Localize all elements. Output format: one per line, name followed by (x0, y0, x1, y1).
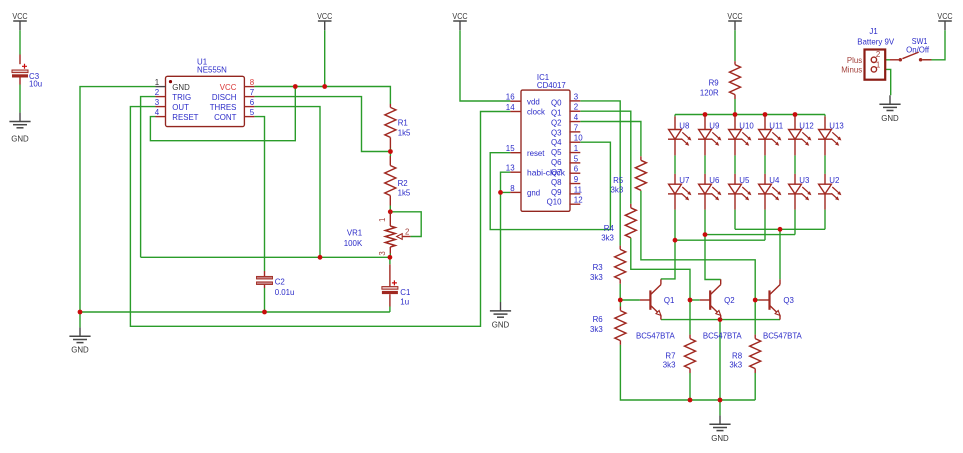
svg-text:3: 3 (378, 251, 387, 256)
svg-text:4: 4 (155, 108, 160, 117)
svg-text:U7: U7 (679, 176, 690, 185)
svg-text:OUT: OUT (172, 103, 189, 112)
svg-text:14: 14 (506, 103, 515, 112)
svg-text:U10: U10 (739, 121, 754, 130)
svg-text:12: 12 (574, 196, 583, 205)
svg-text:SW1: SW1 (912, 37, 928, 46)
svg-text:2: 2 (876, 50, 881, 59)
svg-text:VCC: VCC (727, 12, 742, 21)
svg-text:Minus: Minus (841, 66, 862, 75)
svg-text:Q8: Q8 (551, 178, 562, 187)
svg-text:CD4017: CD4017 (537, 81, 566, 90)
svg-text:120R: 120R (700, 88, 719, 97)
svg-text:Q0: Q0 (551, 99, 562, 108)
svg-text:U2: U2 (829, 176, 840, 185)
svg-text:U11: U11 (769, 121, 783, 130)
svg-text:8: 8 (510, 184, 515, 193)
svg-text:NE555N: NE555N (197, 65, 227, 74)
svg-text:4: 4 (574, 113, 579, 122)
svg-text:Q5: Q5 (551, 148, 562, 157)
svg-text:Q3: Q3 (551, 128, 562, 137)
svg-text:R5: R5 (613, 176, 624, 185)
svg-text:0.01u: 0.01u (275, 288, 295, 297)
svg-text:R3: R3 (593, 263, 604, 272)
svg-text:1: 1 (574, 144, 579, 153)
svg-text:3k3: 3k3 (590, 273, 603, 282)
svg-text:2: 2 (155, 88, 160, 97)
svg-text:Q2: Q2 (551, 118, 562, 127)
svg-text:2: 2 (405, 227, 410, 236)
svg-text:R6: R6 (593, 315, 604, 324)
svg-text:U3: U3 (799, 176, 810, 185)
svg-text:GND: GND (11, 134, 29, 143)
svg-text:U6: U6 (709, 176, 720, 185)
svg-text:J1: J1 (869, 27, 878, 36)
svg-text:R7: R7 (665, 351, 676, 360)
svg-text:7: 7 (574, 123, 579, 132)
svg-text:3: 3 (155, 98, 160, 107)
svg-text:16: 16 (506, 93, 515, 102)
svg-text:3k3: 3k3 (729, 360, 742, 369)
svg-text:VCC: VCC (12, 12, 27, 21)
svg-text:vdd: vdd (527, 97, 540, 106)
svg-text:6: 6 (250, 98, 255, 107)
svg-text:TRIG: TRIG (172, 93, 191, 102)
svg-text:1: 1 (378, 217, 387, 222)
svg-text:gnd: gnd (527, 189, 541, 198)
svg-text:BC547BTA: BC547BTA (636, 332, 675, 341)
svg-text:2: 2 (574, 103, 579, 112)
svg-text:Q3: Q3 (783, 296, 794, 305)
svg-text:GND: GND (492, 321, 510, 330)
svg-text:GND: GND (711, 434, 729, 443)
svg-text:U4: U4 (769, 176, 780, 185)
svg-text:1: 1 (155, 78, 160, 87)
svg-text:U12: U12 (799, 121, 814, 130)
svg-text:1u: 1u (400, 297, 409, 306)
svg-text:1k5: 1k5 (398, 188, 411, 197)
svg-text:Q10: Q10 (547, 198, 562, 207)
svg-text:1k5: 1k5 (398, 128, 411, 137)
svg-text:R8: R8 (732, 351, 743, 360)
svg-text:CONT: CONT (214, 113, 236, 122)
svg-text:Q1: Q1 (551, 109, 562, 118)
svg-text:Q7: Q7 (551, 168, 562, 177)
svg-text:BC547BTA: BC547BTA (703, 332, 742, 341)
svg-text:THRES: THRES (210, 103, 237, 112)
svg-text:GND: GND (71, 346, 89, 355)
svg-text:VR1: VR1 (347, 228, 363, 237)
svg-text:VCC: VCC (317, 12, 332, 21)
svg-text:U8: U8 (679, 121, 690, 130)
svg-text:BC547BTA: BC547BTA (763, 332, 802, 341)
svg-text:R1: R1 (398, 119, 409, 128)
svg-text:Battery 9V: Battery 9V (857, 38, 894, 47)
svg-text:DISCH: DISCH (212, 93, 237, 102)
svg-text:On/Off: On/Off (906, 46, 930, 55)
svg-text:Q9: Q9 (551, 188, 562, 197)
svg-text:GND: GND (172, 83, 190, 92)
svg-text:RESET: RESET (172, 113, 198, 122)
svg-text:1: 1 (876, 61, 881, 70)
svg-text:R4: R4 (604, 224, 615, 233)
svg-text:8: 8 (250, 78, 255, 87)
svg-text:C1: C1 (400, 288, 411, 297)
svg-text:U13: U13 (829, 121, 844, 130)
svg-text:3: 3 (574, 92, 579, 101)
svg-text:6: 6 (574, 165, 579, 174)
svg-text:Q4: Q4 (551, 138, 562, 147)
svg-text:3k3: 3k3 (663, 360, 676, 369)
svg-text:5: 5 (574, 154, 579, 163)
svg-text:Plus: Plus (847, 56, 862, 65)
svg-text:VCC: VCC (937, 12, 952, 21)
svg-text:VCC: VCC (220, 83, 237, 92)
svg-text:10u: 10u (29, 79, 43, 88)
svg-text:5: 5 (250, 108, 255, 117)
svg-text:10: 10 (574, 134, 583, 143)
svg-text:3k3: 3k3 (601, 234, 614, 243)
svg-text:Q1: Q1 (664, 296, 675, 305)
svg-text:11: 11 (574, 185, 583, 194)
svg-text:100K: 100K (344, 239, 363, 248)
svg-text:C2: C2 (275, 277, 286, 286)
svg-text:Q2: Q2 (724, 296, 735, 305)
svg-text:Q6: Q6 (551, 158, 562, 167)
svg-text:13: 13 (506, 164, 515, 173)
svg-text:9: 9 (574, 175, 579, 184)
svg-text:3k3: 3k3 (611, 186, 624, 195)
svg-text:15: 15 (506, 144, 515, 153)
svg-text:GND: GND (881, 114, 899, 123)
svg-text:3k3: 3k3 (590, 325, 603, 334)
svg-text:VCC: VCC (452, 12, 467, 21)
svg-text:R9: R9 (709, 79, 720, 88)
svg-text:7: 7 (250, 88, 255, 97)
svg-text:reset: reset (527, 149, 545, 158)
svg-text:clock: clock (527, 108, 546, 117)
svg-text:U9: U9 (709, 121, 720, 130)
svg-text:R2: R2 (398, 179, 409, 188)
svg-text:U5: U5 (739, 176, 750, 185)
